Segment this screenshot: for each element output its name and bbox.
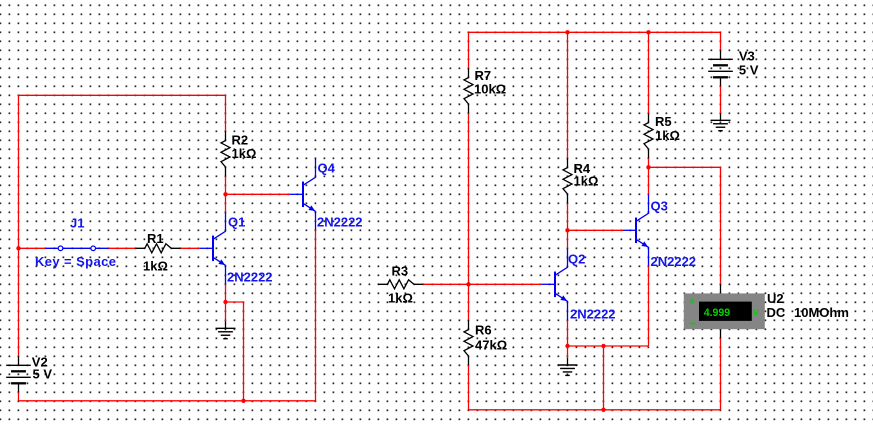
resistor R7 [464,68,473,113]
ground V3 [711,113,731,130]
transistor Q3 [623,194,649,266]
svg-text:V3: V3 [739,49,755,64]
node top rail R5 junction [646,30,650,34]
wire R3 to Q2 base [469,283,543,285]
svg-text:2N2222: 2N2222 [227,270,273,285]
multimeter U2 [684,284,765,338]
svg-text:Q3: Q3 [651,199,668,214]
transistor Q2 [542,248,568,320]
wire R7 top [468,32,470,68]
wire V3 top [720,32,722,50]
node emitter rail left junction [565,344,569,348]
wire R2 top [225,95,227,131]
svg-text:2N2222: 2N2222 [570,307,616,322]
resistor R2 [221,131,230,176]
wire emitter rail to bottom rail [603,346,605,410]
ground left circuit [216,321,236,338]
node top rail R4 junction [565,30,569,34]
wire top rail right circuit [469,31,721,33]
wire ground stub right [567,346,569,358]
wire R3 to node [423,283,468,285]
svg-text:2N2222: 2N2222 [651,254,697,269]
resistor R4 [563,158,572,203]
battery V2 [6,356,31,392]
wire top rail left circuit [19,94,226,96]
ground right circuit [558,358,578,375]
svg-text:10MOhm: 10MOhm [794,305,849,320]
wire R7 to R6 [468,113,470,320]
node emitter rail middle junction [601,344,605,348]
wire J1 left [19,247,46,249]
svg-text:R5: R5 [655,114,672,129]
svg-text:2N2222: 2N2222 [317,215,363,230]
svg-text:1kΩ: 1kΩ [655,128,680,143]
wire emitter rail [568,345,649,347]
wire node to Q1 collector [225,194,227,212]
svg-text:R1: R1 [147,231,164,246]
wire R6 bottom [468,365,470,410]
svg-text:Q1: Q1 [228,215,245,230]
wire left rail vertical [18,95,20,356]
wire R1 to Q1 base [181,247,201,249]
transistor Q1 [200,212,226,284]
wire node to multimeter top [649,167,721,284]
svg-text:1kΩ: 1kΩ [143,259,168,274]
wire R5 bottom [648,158,650,167]
node bottom rail junction left [241,399,245,403]
wire Q3 collector [648,167,650,194]
wire node to Q2 collector [567,230,569,248]
svg-text:1kΩ: 1kΩ [574,174,599,189]
wire R4 bottom [567,203,569,230]
svg-text:1kΩ: 1kΩ [388,291,413,306]
resistor R6 [464,320,473,365]
node Q1 emitter junction [223,300,227,304]
svg-text:DC: DC [767,305,786,320]
svg-text:4.999: 4.999 [704,307,731,319]
wire bottom rail right circuit [469,409,721,411]
svg-text:J1: J1 [70,216,84,231]
svg-text:47kΩ: 47kΩ [475,338,507,353]
resistor R3 [378,280,423,289]
svg-text:R6: R6 [475,323,492,338]
svg-text:1kΩ: 1kΩ [232,146,257,161]
wire Q3 emitter [648,266,650,346]
svg-text:Q2: Q2 [568,252,585,267]
svg-text:5 V: 5 V [33,367,53,382]
node Q4 base junction [223,192,227,196]
node bottom rail junction right [601,408,605,412]
wire node to Q3 base [568,229,624,231]
node J1 left junction [16,246,20,250]
battery V3 [708,50,733,86]
wire R4 top [567,32,569,158]
node R5 bottom junction [646,165,650,169]
wire Q2 emitter [567,320,569,346]
transistor Q4 [290,158,316,230]
node R3 junction [466,282,470,286]
wire node to Q4 base [226,193,291,195]
resistor R1 [136,244,181,253]
wire bottom rail left circuit [19,400,316,402]
wire R2 bottom to node [225,176,227,194]
svg-text:R3: R3 [392,264,409,279]
wire R5 top [648,32,650,113]
resistor R5 [644,113,653,158]
wire ground stub left [225,302,227,321]
wire V3 to ground [720,86,722,113]
switch J1 [46,246,109,251]
svg-text:V: V [753,307,759,317]
wire battery V2 bottom [18,392,20,401]
wire multimeter bottom to rail [720,338,722,410]
wire Q4 emitter down [315,230,317,400]
svg-text:5 V: 5 V [739,63,759,78]
wire J1 to R1 [109,247,136,249]
svg-text:U2: U2 [767,291,784,306]
svg-text:10kΩ: 10kΩ [474,82,506,97]
svg-text:Q4: Q4 [318,161,336,176]
wire emitter junction to bottom rail [226,302,244,401]
node Q3 base junction [565,228,569,232]
svg-text:Key = Space: Key = Space [35,254,116,269]
wire Q1 emitter [225,284,227,302]
